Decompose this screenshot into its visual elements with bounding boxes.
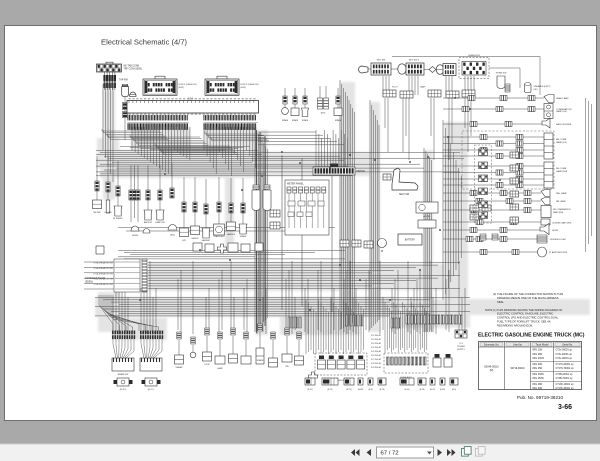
svg-text:LAMP (LH): LAMP (LH) (556, 110, 567, 113)
svg-text:CT170-20001 up: CT170-20001 up (556, 363, 575, 366)
svg-text:TO ALTERNATOR TER: TO ALTERNATOR TER (93, 262, 113, 265)
starter motor (378, 239, 387, 248)
svg-text:R-7 RELAY: R-7 RELAY (371, 358, 382, 361)
svg-text:(B-18): (B-18) (379, 389, 385, 391)
svg-text:8FG 28N: 8FG 28N (533, 383, 543, 386)
relay K1 (122, 87, 129, 97)
svg-text:8FG 20ZN: 8FG 20ZN (533, 373, 544, 376)
fuse box feed wires (385, 302, 427, 352)
harness pin row B (204, 115, 259, 130)
previous page button (367, 449, 372, 456)
svg-text:(M): (M) (490, 369, 494, 372)
svg-text:METER: METER (94, 212, 102, 214)
front combination lamp LH (544, 104, 553, 119)
ignition switch oval (398, 64, 406, 74)
svg-text:(B-74): (B-74) (346, 389, 352, 391)
svg-text:SIDE.: SIDE. (497, 300, 504, 304)
front combination lamp row (443, 106, 544, 111)
svg-text:(2) THE FIGURE OF THE CONNECT: (2) THE FIGURE OF THE CONNECTOR SHOWN IN… (493, 292, 563, 296)
bottom-left diagonal fan wires (99, 295, 159, 331)
page number input (377, 447, 434, 458)
seat switch (392, 168, 418, 190)
svg-text:SHEAR: SHEAR (176, 366, 183, 369)
sensor (4P) column (180, 177, 189, 237)
svg-text:(B-40): (B-40) (404, 389, 410, 391)
pin row B wire drops (204, 127, 256, 176)
svg-text:SEAT SW: SEAT SW (399, 193, 410, 196)
instrument strip riser wires (258, 130, 347, 167)
bottom stack 2 body (140, 358, 162, 371)
wire junction dots (139, 97, 501, 311)
svg-text:Serial No.: Serial No. (562, 344, 573, 347)
svg-text:TO ALTERNATOR TER: TO ALTERNATOR TER (93, 278, 113, 281)
svg-text:TO ALTERNATOR TER: TO ALTERNATOR TER (93, 272, 113, 275)
svg-text:RE COMB: RE COMB (556, 139, 567, 141)
meter panel internal parts (288, 201, 295, 206)
terminal strip labels (93, 262, 113, 287)
ft amplifier (538, 247, 547, 257)
sub component row 2 (96, 246, 104, 254)
rear lamp dashed enclosure (462, 131, 554, 189)
svg-text:8FG 25ZN: 8FG 25ZN (533, 377, 544, 380)
svg-text:POWER: POWER (457, 346, 465, 348)
horn low dome (131, 226, 139, 231)
svg-text:RE COMB: RE COMB (556, 168, 567, 170)
svg-text:(B+YY): (B+YY) (148, 389, 155, 391)
svg-text:CT3B-20001 up: CT3B-20001 up (556, 373, 574, 376)
relay box relays (318, 356, 365, 370)
back buzzer row (443, 121, 542, 126)
bottom connector stack 2 pin row (140, 331, 163, 335)
svg-text:3-66: 3-66 (558, 404, 572, 411)
rear working lamp connector pair (480, 234, 486, 240)
license lamp (541, 206, 551, 218)
pin row A wire drops (132, 127, 190, 176)
rear combination lamp RH rows (443, 163, 544, 168)
pin connector row above fuse box (406, 315, 462, 324)
svg-text:LAMP (LH): LAMP (LH) (556, 141, 567, 144)
svg-text:(B-8): (B-8) (368, 389, 373, 391)
svg-text:(B-70): (B-70) (430, 389, 436, 391)
ft amplifier row (443, 249, 538, 254)
svg-text:LICENSE LAMP (RR): LICENSE LAMP (RR) (552, 222, 572, 225)
tail lamp symbol (541, 190, 550, 197)
svg-text:(B-35): (B-35) (307, 389, 313, 391)
svg-text:CT3x-00001 up: CT3x-00001 up (556, 357, 573, 360)
cross connector (218, 244, 227, 253)
svg-text:BACK BUZZER: BACK BUZZER (556, 123, 572, 126)
svg-text:HORN: HORN (132, 235, 138, 237)
last page button (447, 449, 456, 456)
svg-text:99719-38210: 99719-38210 (510, 367, 525, 370)
bottom component aux at x233 (229, 328, 238, 363)
bottom flat connector row (305, 378, 458, 385)
power supply cabin connector (455, 330, 467, 338)
svg-text:8FG 18N: 8FG 18N (533, 353, 543, 356)
staircase wire patch 3 (155, 143, 239, 155)
sensor SPARE column (239, 178, 247, 234)
rear lamp row 2 (443, 198, 541, 203)
svg-text:SPEAKER (LEFT): SPEAKER (LEFT) (534, 85, 551, 88)
svg-text:ELECTRIC GASOLINE ENGINE TRUCK: ELECTRIC GASOLINE ENGINE TRUCK (MC) (478, 333, 585, 339)
svg-text:8FG 20N: 8FG 20N (533, 363, 543, 366)
svg-text:CT13F-30001 up: CT13F-30001 up (556, 387, 575, 390)
svg-text:HORN: HORN (552, 230, 558, 232)
aux relay pair right (433, 358, 441, 367)
seat harness connector (383, 174, 391, 180)
rear combination lamp RH (544, 162, 553, 188)
svg-text:LAMP: LAMP (420, 86, 426, 89)
svg-text:SPARE: SPARE (257, 359, 264, 362)
instrument panel connector strip (313, 164, 355, 176)
accel sensor (416, 202, 438, 213)
license plate lamp row (443, 219, 541, 224)
terminal strip connector bar (142, 259, 147, 292)
svg-text:CT3x-k0001 up: CT3x-k0001 up (556, 353, 573, 356)
ECM connector E01 (143, 76, 177, 95)
svg-text:Electrical Schematic (4/7): Electrical Schematic (4/7) (101, 38, 188, 47)
svg-text:WORKING LIGHT: WORKING LIGHT (550, 239, 567, 241)
svg-text:ECM 2 (VEHICLE): ECM 2 (VEHICLE) (241, 84, 259, 86)
model table (479, 342, 582, 391)
switch sub-connector drop wires (385, 98, 471, 160)
vertical riser bundle right (424, 148, 432, 332)
bottom connector stack 2 fan wires (141, 339, 162, 358)
bottom component SPARE at x260 (256, 324, 264, 364)
svg-text:CT13F-10001 up: CT13F-10001 up (556, 383, 575, 386)
svg-text:(B-58): (B-58) (419, 389, 425, 391)
tilt steering switch (505, 84, 510, 92)
ignition coil connector grids (340, 240, 349, 247)
relay box dashed enclosure (315, 353, 367, 375)
horn dome (130, 92, 137, 96)
svg-text:METER: METER (357, 170, 366, 173)
svg-text:LAMP (RH): LAMP (RH) (553, 211, 564, 214)
head lamp LH row (443, 95, 544, 100)
sensor wire column (136, 165, 140, 200)
meter panel internal connectors (287, 187, 326, 228)
svg-text:(E55N): (E55N) (85, 281, 93, 284)
svg-text:BATTERY: BATTERY (405, 239, 416, 242)
horn high dome (143, 229, 150, 234)
svg-text:THIS DRAWING SHOWS THE WIR: THIS DRAWING SHOWS THE WIRING DIAGRAM OF (497, 308, 563, 312)
svg-text:TO ALTERNATOR TER: TO ALTERNATOR TER (93, 283, 113, 286)
right edge vertical wires (586, 98, 592, 252)
working light (537, 235, 547, 243)
svg-text:SW: SW (285, 366, 288, 368)
relay box feed wires (306, 300, 364, 354)
svg-text:HORN SW: HORN SW (496, 73, 508, 75)
first page button (351, 449, 360, 456)
svg-text:TAIL LAMP: TAIL LAMP (556, 192, 567, 195)
svg-text:ACCEL: ACCEL (423, 215, 431, 218)
sensor wire column (132, 165, 136, 200)
right mid connector grids column 2 (510, 152, 519, 158)
svg-text:HE-TAB CONN: HE-TAB CONN (124, 65, 140, 68)
bottom component SW at x287 (282, 328, 292, 362)
svg-text:TRF CONN (E09): TRF CONN (E09) (124, 69, 142, 71)
switch row sub connectors (383, 90, 396, 97)
relay pair left of meter panel (252, 190, 260, 211)
rear lamp row 1 (443, 190, 541, 195)
svg-text:REGARDING AROUND ECM.: REGARDING AROUND ECM. (497, 323, 533, 327)
svg-text:RR LAMP: RR LAMP (556, 200, 566, 203)
staircase wire patch 1 (102, 129, 169, 140)
svg-text:RR COMBINATION: RR COMBINATION (553, 208, 571, 211)
back buzzer (542, 118, 550, 128)
svg-text:LAMP: LAMP (217, 367, 223, 370)
svg-text:(4P): (4P) (182, 240, 186, 242)
bottom component LAMP at x220 (215, 332, 225, 364)
svg-text:R-1 RELAY: R-1 RELAY (371, 334, 382, 337)
svg-text:(E01): (E01) (179, 87, 185, 89)
svg-text:DRAWING MEANS ONE OF THE: DRAWING MEANS ONE OF THE MAIN HARNESS (497, 296, 559, 300)
svg-text:M: M (381, 249, 383, 253)
cross connector bottom (309, 372, 318, 381)
speaker left (525, 83, 532, 93)
rear combination lamp LH rows (443, 134, 544, 139)
tap connector pin rows (103, 72, 116, 90)
svg-text:STOP: STOP (204, 364, 210, 366)
staircase wire patch 4 (205, 131, 269, 141)
harness pin row A (128, 115, 190, 130)
svg-text:W/ SHIELD: W/ SHIELD (113, 218, 124, 220)
svg-text:SPARE: SPARE (292, 119, 299, 122)
wire bundle CN102 drops (103, 84, 113, 182)
tilt lever switch body (443, 64, 456, 76)
bottom component SHEAR at x179 (175, 332, 184, 364)
switch row link wires (368, 68, 443, 71)
sub connector below relay (122, 96, 127, 140)
staircase wire patch 2 (130, 135, 209, 146)
svg-text:R-4 RELAY: R-4 RELAY (371, 346, 382, 349)
svg-text:CT3B-70001 up: CT3B-70001 up (556, 377, 574, 380)
horizontal bus band 2 (118, 251, 345, 259)
svg-text:SUPPLY: SUPPLY (457, 349, 465, 351)
sensor HANDLE column (227, 178, 236, 231)
sensor LAMP SW column (156, 165, 164, 220)
svg-text:SPARE: SPARE (302, 119, 309, 122)
bottom component aux at x299 (295, 332, 304, 365)
rear combination lamp LH (544, 133, 553, 159)
svg-text:SHIELD: SHIELD (191, 238, 199, 240)
svg-text:LAMP (RH): LAMP (RH) (556, 170, 567, 173)
svg-text:KEY SW 2: KEY SW 2 (409, 60, 420, 62)
svg-text:Used for: Used for (513, 344, 522, 347)
svg-text:SPARE: SPARE (335, 119, 342, 122)
svg-text:FT AMPLIFIER (RR): FT AMPLIFIER (RR) (549, 251, 568, 254)
sensor SPARK ADV column (214, 177, 225, 235)
bottom component STOP at x207 (203, 328, 212, 361)
inline diamond connector (429, 67, 436, 73)
svg-text:(B-52): (B-52) (327, 389, 333, 391)
chain box dashed enclosure (459, 58, 489, 79)
relay box label list (371, 334, 382, 369)
svg-text:LAMP SW: LAMP SW (155, 221, 164, 224)
svg-text:LP GAS: LP GAS (104, 211, 112, 214)
svg-text:(E07): (E07) (321, 113, 326, 115)
svg-text:8FG 25N: 8FG 25N (533, 367, 543, 370)
bottom component aux at x246 (241, 332, 251, 364)
bottom connector stack 1 fan wires (113, 339, 134, 358)
svg-text:67 / 72: 67 / 72 (381, 451, 399, 457)
working light row (443, 236, 537, 241)
svg-text:MAGNET: MAGNET (202, 239, 211, 242)
fuse box fuses (387, 357, 427, 365)
license plate lamp (541, 219, 550, 225)
horn rear row (443, 227, 540, 232)
bottom connector stack 1 pin row (112, 331, 135, 335)
rr lamp symbol (541, 198, 550, 205)
sensor LP GAS column (106, 157, 110, 213)
svg-text:FUEL TYPE OF FORKLIFT TRUC: FUEL TYPE OF FORKLIFT TRUCK. SEE 4A (497, 320, 551, 324)
svg-text:SPARE: SPARE (282, 119, 289, 122)
bottom stack 2 component (142, 378, 161, 386)
vertical riser bundle center-left (255, 128, 267, 332)
svg-text:PILOT: PILOT (392, 87, 399, 89)
vertical riser bundle center-right (370, 100, 379, 330)
snapshot tool icon (462, 447, 472, 457)
svg-text:BRAKE SW: BRAKE SW (118, 373, 129, 376)
horn rear (540, 224, 549, 235)
svg-text:CT3x-00001 up: CT3x-00001 up (556, 348, 573, 351)
vertical riser bundle far right feeds (443, 120, 461, 300)
svg-text:R-3 RELAY: R-3 RELAY (371, 342, 382, 345)
connector CN101 (97, 62, 122, 72)
sensor wire column (170, 163, 174, 198)
oil pressure switch wires triple (131, 200, 138, 222)
svg-text:(B-88): (B-88) (358, 389, 364, 391)
hanging components under harness right (282, 88, 289, 114)
vertical riser bundle center (340, 80, 354, 330)
right dashed column connector stack (479, 149, 488, 156)
svg-text:8FG 30N: 8FG 30N (533, 387, 543, 390)
switch row drop wires (383, 76, 474, 95)
dark connector pair hanging (320, 86, 326, 98)
horizontal bus band 3 from terminal strip (148, 263, 460, 289)
ECM connector E02 (205, 76, 239, 95)
svg-text:METER PANEL: METER PANEL (287, 183, 304, 186)
sensor wire column (129, 165, 133, 200)
svg-text:Truck Model: Truck Model (535, 344, 549, 347)
svg-text:(E14): (E14) (170, 235, 175, 237)
ignition switch body (406, 63, 424, 75)
tilt angle sensor (418, 220, 436, 228)
svg-text:R-5 RELAY: R-5 RELAY (371, 350, 382, 353)
wire drops from bus bands to bottom connectors (113, 261, 465, 334)
sensor BACKUP column (144, 165, 152, 220)
small connector grids center (270, 210, 280, 217)
key switch body (371, 63, 391, 75)
bottom component aux at x193 (190, 337, 196, 358)
svg-text:NOTE (1): NOTE (1) (485, 308, 497, 312)
svg-text:SPARK ADV: SPARK ADV (213, 235, 225, 238)
relay K1 cap (122, 84, 128, 86)
sensor SHIELD column (191, 177, 200, 235)
tilt lever switch oval (436, 65, 444, 75)
svg-text:8FG 10N: 8FG 10N (533, 348, 543, 351)
bottom flat connector labels (307, 389, 456, 391)
battery (398, 234, 422, 245)
svg-text:(B-80): (B-80) (440, 389, 446, 391)
bottom component aux at x273 (269, 332, 278, 367)
svg-text:CT170-70001 up: CT170-70001 up (556, 367, 575, 370)
harness box pin number rows (129, 98, 256, 115)
svg-text:TAP-RM: TAP-RM (119, 79, 128, 82)
reverse relay cluster (470, 205, 479, 211)
svg-text:KEY SW: KEY SW (377, 60, 386, 62)
bottom toolbar background (0, 444, 600, 461)
key switch key symbol (359, 66, 369, 73)
chain box connector grid (462, 62, 486, 76)
head lamp LH (544, 95, 554, 103)
connect-to terminal strip (84, 259, 140, 292)
main harness junction box E04 (127, 101, 259, 114)
svg-text:(4P): (4P) (534, 89, 538, 91)
svg-text:HANDLE: HANDLE (227, 233, 236, 236)
copy page icon (disabled) (476, 447, 486, 457)
horn switch (497, 76, 505, 89)
svg-text:R-8 RELAY: R-8 RELAY (371, 362, 382, 365)
svg-text:Pub. No. 99719-38210: Pub. No. 99719-38210 (517, 395, 564, 400)
pin cluster mid-bottom 1 (288, 317, 301, 328)
license lamp wire row (443, 207, 541, 212)
svg-text:(B-0): (B-0) (452, 389, 457, 391)
right dashed connector column enclosure (475, 145, 492, 223)
svg-text:R-6 RELAY: R-6 RELAY (371, 354, 382, 357)
svg-text:(E02): (E02) (241, 87, 247, 89)
sensor MAGNET column (202, 179, 210, 238)
wire top bus to lamps (392, 57, 540, 96)
center riser emphasis lines (257, 130, 333, 333)
sensor METER column (93, 156, 102, 209)
meter panel box (285, 180, 329, 235)
svg-text:TO ALTERNATOR TER: TO ALTERNATOR TER (93, 267, 113, 270)
bottom stack 1 body (112, 358, 134, 371)
svg-text:CONTROL LPG AND ELECTRIC C: CONTROL LPG AND ELECTRIC CONTROL DUAL (497, 316, 559, 320)
svg-text:SPARE: SPARE (240, 235, 247, 238)
pin cluster mid-bottom 3 (391, 318, 401, 328)
main horizontal bus band 1 (96, 151, 464, 176)
svg-text:8FG 20CN: 8FG 20CN (533, 357, 545, 360)
alternator dome (168, 225, 177, 230)
pin cluster mid-bottom 2 (346, 315, 363, 326)
svg-text:R-2 RELAY: R-2 RELAY (371, 338, 382, 341)
svg-text:Schematic No.: Schematic No. (484, 344, 500, 347)
svg-text:ECM 2 (VEHICLE): ECM 2 (VEHICLE) (179, 84, 197, 86)
svg-text:ELECTRIC CONTROL GASOLIN: ELECTRIC CONTROL GASOLINE, ELECTRIC (497, 312, 553, 316)
svg-text:HEAD LAMP: HEAD LAMP (556, 97, 569, 100)
svg-text:(B+XX): (B+XX) (120, 389, 127, 391)
bottom stack 1 component (114, 378, 133, 386)
bus band 1 extra lines (120, 147, 250, 151)
sensor W/ SHIELD column (114, 161, 122, 216)
mid horizontal link wires (118, 228, 335, 232)
svg-text:BACKUP: BACKUP (144, 221, 153, 224)
fuse box dashed enclosure (384, 353, 428, 373)
horizontal bus band 4 lower (95, 298, 470, 316)
svg-text:R-9 RELAY: R-9 RELAY (371, 366, 382, 369)
next page button (438, 449, 443, 456)
